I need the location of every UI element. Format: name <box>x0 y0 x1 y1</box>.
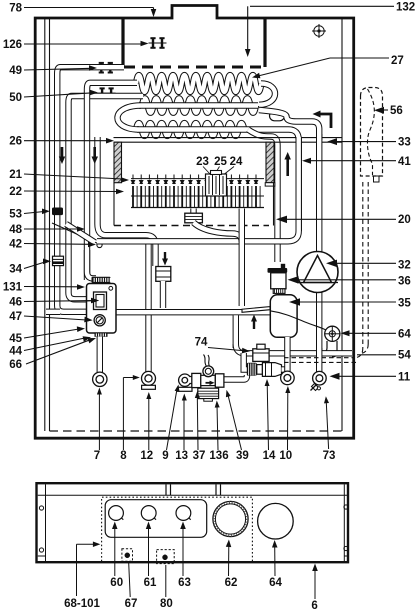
pipe 73 drop <box>316 348 322 372</box>
pressure gauge 64 <box>325 326 340 341</box>
leader 56 <box>381 109 388 111</box>
burner strip with flame jets (21) and manifold comb (22) <box>131 178 264 180</box>
flow regulator 136 <box>198 388 219 398</box>
dashed box 67 <box>122 549 133 561</box>
panel leader 64 <box>274 546 276 577</box>
pilot leader 25 <box>217 167 220 171</box>
chamber left wall bar <box>114 142 122 183</box>
gas valve small circle <box>109 286 113 290</box>
svg-text:60: 60 <box>110 577 123 589</box>
svg-text:45: 45 <box>9 333 22 345</box>
gas valve inlet connector 131 <box>92 277 111 283</box>
leader 36 <box>294 279 397 281</box>
svg-text:32: 32 <box>398 260 411 272</box>
leader 21 <box>24 174 123 179</box>
coil row3 outlet stub to air vent pipe <box>248 130 278 263</box>
boiler outer case <box>35 6 354 439</box>
svg-text:10: 10 <box>279 450 292 462</box>
coil left U-bend <box>117 106 141 130</box>
pipe 12 riser V5 <box>145 245 151 373</box>
component 34 on pipe <box>53 256 64 265</box>
svg-text:56: 56 <box>390 105 403 117</box>
leader 64 <box>346 332 396 334</box>
panel top inner line <box>38 494 347 496</box>
leader 132 <box>250 5 394 7</box>
flue duct 56 dashed outline <box>361 88 383 177</box>
pipe assembly out to 14 <box>222 375 247 380</box>
flue hood dashed line <box>124 66 263 69</box>
assembly body <box>201 375 216 385</box>
flow arrow down left <box>61 147 64 158</box>
condensate dashed horizontal <box>284 357 354 359</box>
pump 32 <box>297 252 338 293</box>
pipe union to gas valve run <box>160 281 166 308</box>
flow arrow down mid <box>93 147 96 158</box>
leader 47 <box>24 316 87 320</box>
case inner dashed bottom line <box>50 430 343 432</box>
case inner panel line right <box>341 18 343 431</box>
heat exchanger coil row 3 <box>136 123 244 136</box>
switch dot 80 <box>163 555 168 560</box>
elbow fitting 9 ring <box>179 374 191 386</box>
leader 131 <box>24 286 79 288</box>
svg-text:13: 13 <box>175 450 188 462</box>
pipe left vertical V3 <box>87 83 137 280</box>
heat exchanger coil row 1 (27) <box>136 75 261 92</box>
auto air vent collar <box>273 289 285 294</box>
panel screw bottom-right <box>344 546 348 550</box>
auto air vent cap <box>268 268 288 273</box>
leader 41 <box>308 160 396 162</box>
auto air vent 36 cap nub <box>281 264 285 269</box>
svg-text:7: 7 <box>94 450 100 462</box>
flow arrow down at union <box>164 252 166 259</box>
panel screw top-left <box>39 506 43 510</box>
adjusting screw 45 <box>94 315 105 326</box>
svg-text:80: 80 <box>160 598 173 610</box>
chamber box right line <box>273 183 275 226</box>
svg-text:44: 44 <box>9 346 22 358</box>
leader 49 <box>24 68 92 70</box>
combustion chamber left wall top <box>121 18 124 67</box>
leader 78 <box>24 7 154 9</box>
flue duct inner wavy line <box>367 89 374 175</box>
leader 13 <box>183 398 185 450</box>
panel screw bottom-left <box>39 548 43 552</box>
pipe V3 into valve elbow <box>87 250 96 279</box>
flow arrow bent top right <box>319 114 331 128</box>
gauge drain elbow <box>321 341 327 352</box>
pipe left vertical V2 <box>69 96 144 299</box>
leader 50 <box>24 93 93 97</box>
coil right U-bend rows1-2 <box>259 84 275 105</box>
svg-text:6: 6 <box>311 600 317 612</box>
svg-text:39: 39 <box>236 450 249 462</box>
pipe V4 gas riser <box>98 137 156 266</box>
leader 53 <box>24 212 44 214</box>
panel leader 62 <box>228 545 230 576</box>
pipe diagonal to junction <box>66 224 95 243</box>
svg-text:9: 9 <box>162 450 168 462</box>
leader 39 <box>228 394 242 450</box>
flow arrow up right <box>286 158 289 176</box>
knob 60 <box>109 506 124 521</box>
leader 8 <box>122 378 124 451</box>
panel right margin line <box>343 484 345 561</box>
pilot leader 23 <box>203 167 210 175</box>
svg-text:27: 27 <box>391 55 404 67</box>
wire to junction <box>52 223 99 244</box>
svg-text:24: 24 <box>230 156 243 168</box>
svg-text:62: 62 <box>225 577 238 589</box>
coil row3 straight thread to V9 <box>137 130 299 232</box>
panel leader 6 <box>314 569 316 599</box>
svg-text:20: 20 <box>398 214 411 226</box>
leader 46 overlay <box>87 300 93 302</box>
pilot burner assembly <box>206 174 227 196</box>
fitting 12 flange <box>142 385 156 389</box>
svg-text:73: 73 <box>323 450 336 462</box>
svg-text:37: 37 <box>193 450 206 462</box>
chamber right wall bar <box>266 142 274 183</box>
leader 73 <box>326 401 328 449</box>
pipe branch V11 <box>233 315 239 348</box>
leader 22 <box>24 190 118 193</box>
clamp 49 <box>97 67 115 69</box>
pipe left vertical V1 <box>57 67 124 312</box>
gas valve bottom connector 66 <box>95 333 108 337</box>
assembly left cap <box>192 373 201 387</box>
panel leader 68-101 <box>76 544 78 596</box>
svg-text:23: 23 <box>196 156 209 168</box>
heat exchanger coil row 2 <box>142 98 256 112</box>
assembly flow arrow <box>206 382 212 384</box>
leader 26 <box>24 140 108 142</box>
leader 126 <box>24 43 145 45</box>
leader 10 <box>287 391 289 451</box>
clamp 53 black block <box>52 208 63 216</box>
union nut F2 on gas drop <box>156 267 171 282</box>
leader 32 <box>332 262 396 264</box>
clamp 50 <box>98 92 116 94</box>
auto air vent body <box>271 273 286 289</box>
leader 12 <box>148 397 150 451</box>
combustion chamber right wall top <box>263 18 266 67</box>
clamp 126 <box>149 42 167 44</box>
svg-text:25: 25 <box>214 156 227 168</box>
leader 54 <box>357 354 396 356</box>
hydraulic vessel 35 <box>270 295 297 338</box>
panel leader 61 <box>148 527 150 576</box>
flow arrow up at plate <box>253 321 255 329</box>
leader 11 <box>335 375 396 377</box>
pilot leader 24 <box>225 167 235 175</box>
svg-text:68-101: 68-101 <box>64 598 100 610</box>
svg-text:47: 47 <box>9 311 22 323</box>
big knob 64 <box>258 503 294 539</box>
burner feed pipe stub <box>190 209 196 215</box>
panel leader 60 <box>114 527 116 576</box>
case inner panel lines left <box>44 18 46 431</box>
assembly right cap <box>215 374 224 387</box>
svg-text:67: 67 <box>125 598 138 610</box>
pipe V7 gas line riser <box>239 209 245 307</box>
leader 20 <box>283 218 396 220</box>
leader 35 <box>295 301 396 303</box>
leader 136 <box>217 405 218 450</box>
panel mounting tab 2 <box>215 484 217 495</box>
panel leader 67 <box>129 563 131 597</box>
condensate dashed elbow <box>354 348 363 358</box>
gas valve pipe left stub <box>46 309 60 315</box>
leader 14 <box>267 384 268 451</box>
svg-text:46: 46 <box>9 297 22 309</box>
leader 74 <box>208 348 244 351</box>
coil tray lines <box>114 137 343 139</box>
panel screw top-right <box>344 505 348 509</box>
union nut F1 <box>185 213 203 223</box>
knob 61 <box>141 506 156 521</box>
svg-text:48: 48 <box>9 224 22 236</box>
sensor plate <box>242 307 270 313</box>
svg-text:54: 54 <box>398 350 411 362</box>
valve 74 body <box>253 349 269 362</box>
leader 37 <box>196 396 199 451</box>
gas pipe end ring 7 <box>93 372 107 386</box>
big knob 62 <box>213 501 248 536</box>
motor wire squiggle <box>204 355 210 367</box>
svg-text:61: 61 <box>144 577 157 589</box>
svg-text:66: 66 <box>9 359 22 371</box>
svg-text:136: 136 <box>209 450 228 462</box>
switch dot 67 <box>125 553 130 558</box>
condensate dashed downpipe <box>362 182 364 348</box>
leader 42 <box>24 243 90 246</box>
gas pipe down from valve (7) <box>97 337 103 373</box>
pipe F1 diagonal to V7 <box>194 223 242 243</box>
leader 27 <box>330 57 389 59</box>
pipe end ring 73 <box>313 371 327 385</box>
pipe feed to valve 14 <box>244 353 248 370</box>
leader 47 overlay <box>86 319 88 321</box>
svg-text:49: 49 <box>9 65 22 77</box>
pipe 14 to ring 10 <box>282 366 288 372</box>
vessel neck pipe 10 <box>284 337 290 372</box>
svg-text:126: 126 <box>3 39 22 51</box>
pipe junction node <box>97 242 102 247</box>
leader 46 <box>24 300 93 303</box>
gas valve body 46 <box>87 284 117 334</box>
bottom pipe run H7 <box>236 344 352 353</box>
svg-text:53: 53 <box>9 209 22 221</box>
svg-text:42: 42 <box>9 239 22 251</box>
knob plate rounded rect <box>105 500 207 538</box>
leader 44 <box>24 338 85 351</box>
svg-text:50: 50 <box>9 92 22 104</box>
panel leader 80 <box>165 565 167 597</box>
leader 7 <box>98 392 100 450</box>
svg-text:131: 131 <box>3 282 23 294</box>
svg-text:78: 78 <box>9 3 22 15</box>
svg-text:22: 22 <box>9 186 22 198</box>
svg-text:63: 63 <box>178 577 191 589</box>
dashed box 80 <box>157 550 175 564</box>
svg-text:21: 21 <box>9 169 22 181</box>
svg-text:74: 74 <box>195 337 208 349</box>
svg-text:12: 12 <box>140 450 153 462</box>
capillary tube to gauge <box>270 311 326 330</box>
coil outlet to pump pipe elbow <box>259 110 319 140</box>
coil sensor pocket capsule <box>270 111 285 121</box>
assembly motor head <box>203 366 214 377</box>
gas valve window 47 <box>94 292 107 310</box>
flue duct bottom nub <box>374 176 380 182</box>
filling valve 14 knurl <box>247 363 257 376</box>
pipe long return run <box>97 137 299 241</box>
panel mounting tab 1 <box>165 484 167 495</box>
knob 63 <box>176 506 191 521</box>
drain tap 73 <box>312 384 319 391</box>
leader 9 <box>167 389 178 450</box>
pipe fitting ring 12 <box>142 371 156 385</box>
svg-text:8: 8 <box>120 450 127 462</box>
pipe end ring 10 <box>281 371 295 385</box>
gas valve pipe out right <box>115 309 271 315</box>
svg-text:132: 132 <box>396 2 415 14</box>
svg-text:26: 26 <box>9 136 22 148</box>
svg-text:36: 36 <box>398 275 411 287</box>
chamber bottom dashed line <box>114 225 269 227</box>
svg-text:41: 41 <box>398 156 411 168</box>
leader 33 <box>333 141 396 143</box>
panel left margin line <box>45 484 47 561</box>
leader 48 <box>24 228 79 230</box>
leader 34 <box>24 262 45 269</box>
filling valve 14 body <box>257 365 263 375</box>
svg-text:34: 34 <box>9 264 22 276</box>
leader 45 <box>24 329 79 338</box>
leader 66 <box>26 340 90 364</box>
svg-text:35: 35 <box>398 298 411 310</box>
coil row2 straight thread <box>139 102 258 108</box>
screw crosshair top right <box>314 26 324 36</box>
svg-text:11: 11 <box>398 372 411 384</box>
panel leader 63 <box>182 527 184 576</box>
elbow 9 flange <box>178 387 192 391</box>
control board dotted zone 68-101 <box>102 497 253 561</box>
svg-text:33: 33 <box>398 137 411 149</box>
svg-text:64: 64 <box>398 329 411 341</box>
pipe V10 pump feed <box>316 134 322 352</box>
chamber box left line <box>113 183 115 226</box>
control panel outer box <box>37 483 349 562</box>
svg-text:14: 14 <box>263 450 276 462</box>
svg-text:64: 64 <box>269 577 282 589</box>
